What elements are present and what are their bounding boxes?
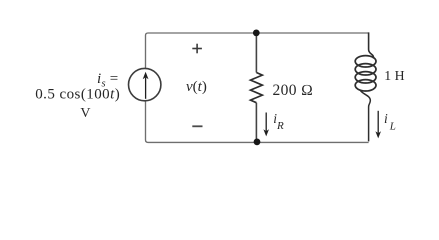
- wire outer loop: [146, 33, 369, 142]
- svg-text:v(t): v(t): [186, 79, 207, 95]
- svg-text:iR: iR: [273, 111, 284, 132]
- current source U1 circle: [129, 68, 161, 100]
- inductor L coil top lead: [369, 32, 374, 58]
- inductor L loop 3: [355, 72, 376, 83]
- arrow iL: [375, 111, 381, 139]
- svg-text:1 H: 1 H: [384, 68, 404, 83]
- inductor L bottom lead: [360, 90, 370, 141]
- inductor L loop 1: [355, 56, 376, 67]
- inductor L loop 4: [355, 80, 376, 91]
- wire resistor branch lower lead: [255, 103, 257, 143]
- inductor L loop 2: [355, 64, 376, 75]
- junction dot top: [253, 30, 260, 37]
- arrow iR: [263, 113, 269, 137]
- wire resistor branch upper lead: [255, 33, 257, 73]
- plus sign: [192, 44, 202, 54]
- svg-text:0.5 cos(100t): 0.5 cos(100t): [35, 87, 120, 103]
- minus sign: [192, 125, 202, 127]
- resistor R zigzag: [251, 73, 263, 103]
- junction dot bottom: [254, 139, 261, 146]
- svg-text:200 Ω: 200 Ω: [273, 82, 314, 99]
- svg-text:V: V: [80, 106, 90, 121]
- svg-text:iL: iL: [384, 111, 396, 132]
- current source arrow: [143, 72, 149, 99]
